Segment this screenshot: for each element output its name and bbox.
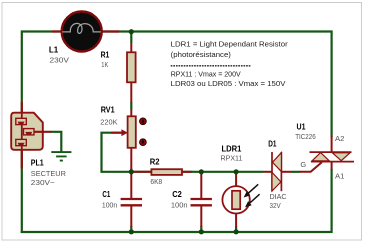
lamp L1 body xyxy=(62,12,102,52)
svg-text:RV1: RV1 xyxy=(101,106,115,115)
wire mid rail wiper U-shape xyxy=(102,133,132,172)
triac U1 gate pin xyxy=(300,162,322,172)
svg-text:32V: 32V xyxy=(270,201,281,210)
svg-text:(photorésistance): (photorésistance) xyxy=(171,50,231,59)
socket PL1 slot N xyxy=(16,139,26,145)
svg-text:D1: D1 xyxy=(268,139,277,148)
svg-text:A1: A1 xyxy=(335,172,344,181)
svg-text:RPX11: RPX11 xyxy=(221,154,243,163)
LDR1 pin top xyxy=(235,173,237,187)
svg-text:DIAC: DIAC xyxy=(270,192,288,201)
svg-text:230V: 230V xyxy=(50,56,70,65)
svg-text:LDR1 = Light Dependant Resisto: LDR1 = Light Dependant Resistor xyxy=(171,40,289,49)
socket PL1 slot E xyxy=(24,129,35,135)
potentiometer RV1 up button xyxy=(140,118,147,125)
resistor R2 pin right xyxy=(182,171,192,173)
diac D1 pin left xyxy=(263,171,272,173)
triac U1 top bar xyxy=(310,151,352,153)
capacitor C2 plates xyxy=(191,199,212,205)
svg-text:SECTEUR: SECTEUR xyxy=(31,169,66,178)
LDR1 pin bottom xyxy=(235,214,237,227)
svg-text:U1: U1 xyxy=(297,122,306,131)
resistor R2 pin left xyxy=(132,171,152,173)
svg-text:R1: R1 xyxy=(101,51,110,60)
junction node bottom C2 xyxy=(199,229,204,234)
svg-text:100n: 100n xyxy=(102,200,117,209)
svg-text:LDR1: LDR1 xyxy=(222,145,242,154)
capacitor C1 pin top xyxy=(130,173,132,199)
wire C1 bottom / C2 bottom / LDR bottom green stubs xyxy=(131,226,236,232)
wire main loop top/left/right upper xyxy=(22,32,332,234)
potentiometer RV1 wiper arrow xyxy=(111,132,123,134)
capacitor C2 pin bottom xyxy=(200,206,202,227)
socket PL1 pin lead top xyxy=(21,102,23,114)
ground wire from PL1 xyxy=(51,132,62,152)
svg-text:220K: 220K xyxy=(100,118,117,127)
svg-text:C2: C2 xyxy=(172,190,182,199)
svg-text:RPX11 : Vmax = 200V: RPX11 : Vmax = 200V xyxy=(171,70,241,79)
svg-text:1K: 1K xyxy=(101,60,108,69)
junction node mid LDR xyxy=(234,169,239,174)
LDR1 inner resistor xyxy=(232,191,240,209)
diac D1 right bar xyxy=(280,152,282,191)
svg-text:R2: R2 xyxy=(150,158,160,167)
svg-text:LDR03 ou LDR05 : Vmax = 150V: LDR03 ou LDR05 : Vmax = 150V xyxy=(171,79,286,88)
svg-text:100n: 100n xyxy=(171,200,188,209)
wire bottom and right lower xyxy=(21,169,332,233)
svg-text:G: G xyxy=(300,160,306,169)
socket PL1 pin lead bottom xyxy=(21,148,23,169)
note dashed separator xyxy=(171,65,252,67)
triac U1 pin A2 xyxy=(331,136,333,153)
resistor R1 body xyxy=(127,52,136,82)
resistor R1 pin top xyxy=(130,43,132,52)
diac D1 bottom triangle xyxy=(272,172,281,191)
triac U1 left triangle xyxy=(312,153,329,161)
triac U1 bottom bar xyxy=(311,161,354,163)
LDR1 circle xyxy=(222,186,249,213)
capacitor C2 pin top xyxy=(200,173,202,199)
potentiometer RV1 down button xyxy=(140,139,147,146)
resistor R1 pin bottom xyxy=(130,82,132,103)
wire R1 branch vertical xyxy=(130,32,132,172)
svg-text:C1: C1 xyxy=(102,190,110,199)
LDR1 light arrow 1 xyxy=(246,184,258,195)
potentiometer RV1 pin top xyxy=(130,110,132,117)
junction node bottom C1 xyxy=(129,229,134,234)
socket PL1 internal wire xyxy=(21,113,23,149)
socket PL1 slot L xyxy=(16,118,26,124)
junction node top R1 xyxy=(129,29,134,34)
triac U1 right triangle xyxy=(332,153,350,161)
resistor R2 body xyxy=(151,169,182,175)
svg-text:6K8: 6K8 xyxy=(150,177,162,186)
junction node mid R2 left xyxy=(129,169,134,174)
lamp L1 filament xyxy=(62,23,101,33)
lamp L1 lead left (pin) xyxy=(52,30,62,32)
socket PL1 earth wire to right xyxy=(35,131,52,133)
svg-text:A2: A2 xyxy=(335,134,344,143)
svg-text:L1: L1 xyxy=(49,45,59,54)
capacitor C1 plates xyxy=(121,199,142,205)
potentiometer RV1 body xyxy=(128,116,136,148)
svg-text:230V~: 230V~ xyxy=(31,178,55,187)
potentiometer RV1 pin bottom xyxy=(130,148,132,170)
triac U1 pin A1 xyxy=(331,162,333,171)
svg-text:TIC226: TIC226 xyxy=(295,132,316,141)
svg-text:PL1: PL1 xyxy=(31,159,44,168)
wire mid horizontal R2 to triac gate xyxy=(131,171,300,173)
diac D1 pin right xyxy=(281,171,291,173)
socket PL1 body xyxy=(11,113,43,150)
diac D1 left bar xyxy=(271,152,273,191)
ground symbol xyxy=(51,152,71,161)
diac D1 top triangle xyxy=(273,153,282,172)
lamp L1 lead right (pin) xyxy=(101,30,119,32)
LDR1 light arrow 2 xyxy=(248,194,260,205)
capacitor C1 pin bottom xyxy=(130,206,132,227)
junction node mid C2 xyxy=(199,169,204,174)
junction node bottom LDR xyxy=(234,229,239,234)
